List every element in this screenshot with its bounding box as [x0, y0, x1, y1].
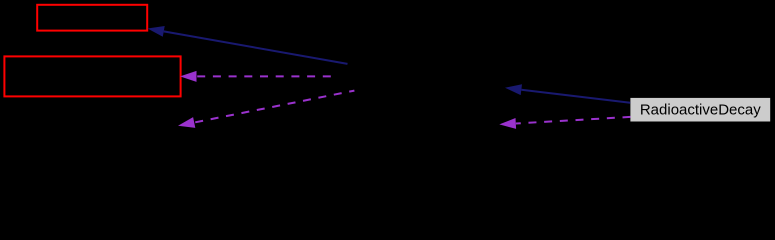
svg-text:RadioactiveDecay: RadioactiveDecay	[640, 101, 761, 118]
